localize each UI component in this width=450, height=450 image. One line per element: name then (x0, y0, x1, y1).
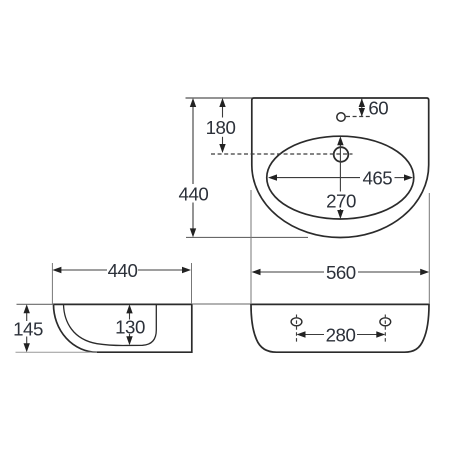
extension line linking side and front views (y=304) (192, 303, 251, 305)
svg-text:560: 560 (326, 262, 356, 283)
extension line 560-left (x=251.4) (250, 190, 252, 304)
svg-text:440: 440 (179, 183, 209, 204)
dimension 180 vertical line (222, 106, 224, 145)
svg-text:280: 280 (326, 324, 356, 345)
dimension 440 vertical line (192, 106, 194, 230)
dimension 60 arrows (359, 99, 365, 117)
front view outline (251, 304, 429, 352)
extension line side view bottom (y=352.3) (16, 351, 98, 353)
extension line 440-right (x=191.5) (191, 263, 193, 304)
dimension 270 arrows (337, 136, 343, 219)
svg-text:180: 180 (206, 117, 236, 138)
dimension 440 side arrows (52, 267, 191, 273)
svg-text:60: 60 (368, 97, 388, 118)
dimension 280 arrows (297, 331, 386, 337)
top view bowl ellipse (267, 136, 414, 219)
dimension 270 vertical line (339, 145, 341, 211)
dashed centerline tap hole (211, 153, 353, 155)
svg-text:130: 130 (115, 317, 145, 338)
svg-text:465: 465 (362, 167, 392, 188)
dashed centerline right hole (384, 315, 386, 344)
dimension 560 horizontal line (260, 271, 422, 273)
side view outline (54, 304, 192, 352)
svg-text:145: 145 (13, 319, 43, 340)
dimension 465 horizontal line (277, 177, 406, 179)
mounting hole left (291, 318, 302, 326)
svg-text:440: 440 (108, 260, 138, 281)
extension line side view top (y=304.35) (17, 303, 54, 305)
dimension 145 arrows (24, 304, 30, 352)
mounting hole right (380, 318, 391, 326)
extension line 560-right (x=429.3) (428, 193, 430, 304)
extension line top (y=98) (186, 97, 253, 99)
svg-text:270: 270 (326, 190, 356, 211)
dimension 440 arrows (190, 98, 196, 237)
dimension 145 vertical line (26, 313, 28, 345)
dimension 180 arrows (219, 98, 225, 153)
overflow hole circle (337, 113, 345, 121)
dimension 130 arrows (126, 304, 132, 345)
dashed centerline overflow hole (346, 116, 372, 118)
extension line bottom of top view (y=237.4) (186, 236, 308, 238)
dimension 60 vertical line (361, 99, 363, 117)
dashed centerline left hole (296, 315, 298, 344)
top view basin outline (252, 98, 429, 238)
dimension 465 arrows (268, 174, 413, 180)
dimension 560 arrows (252, 269, 430, 275)
tap hole circle (334, 147, 349, 162)
dimension 280 horizontal line (305, 334, 377, 336)
extension line 440-left (x=52.4) (51, 263, 53, 304)
dimension 130 vertical line (129, 313, 131, 338)
dimension 440 side horizontal line (61, 269, 184, 271)
side view inner bowl line (64, 304, 157, 345)
